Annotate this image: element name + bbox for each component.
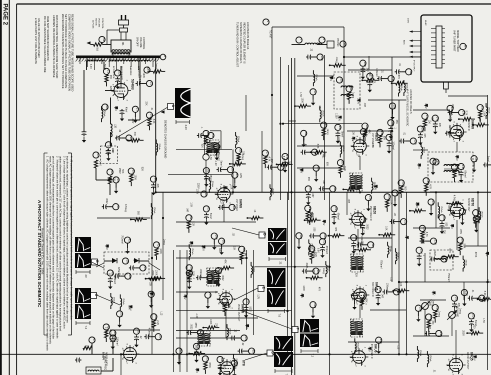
peaking coil L206: [479, 211, 480, 219]
wire vertical bus right edge: [487, 95, 489, 370]
svg-text:1.5K: 1.5K: [299, 92, 301, 97]
designator circle 2: [160, 54, 167, 60]
resistor R62: [108, 176, 111, 184]
svg-text:1.2K: 1.2K: [98, 161, 100, 166]
resistor R72: [222, 266, 230, 269]
svg-text:.1: .1: [132, 259, 134, 262]
designator circle 119: [386, 134, 393, 141]
wire: [392, 82, 396, 84]
designator circle 131: [351, 293, 358, 300]
designator circle 159: [415, 305, 422, 312]
svg-text:3: 3: [462, 141, 464, 143]
svg-text:250uh: 250uh: [342, 146, 344, 153]
designator circle 231: [360, 217, 367, 224]
capacitor C37: [102, 204, 108, 209]
svg-text:250uh: 250uh: [488, 107, 490, 114]
svg-text:4.7K: 4.7K: [448, 248, 450, 253]
resistor R209: [459, 243, 462, 251]
node: [229, 163, 231, 165]
designator circle 62: [107, 169, 114, 175]
wire: [179, 250, 181, 372]
wire: [359, 305, 361, 318]
svg-text:MODEL TOP VIEW: MODEL TOP VIEW: [456, 30, 459, 52]
svg-text:250uh: 250uh: [112, 297, 114, 304]
svg-text:124: 124: [395, 191, 399, 196]
wire vertical bus x392: [391, 57, 393, 282]
junction: [398, 353, 400, 355]
peaking coil L220: [309, 243, 310, 251]
capacitor C113: [377, 76, 383, 81]
svg-text:152: 152: [463, 210, 467, 215]
oscillogram photo A (sync waveform): [175, 88, 191, 130]
resistor R9: [204, 137, 207, 145]
wire: [357, 229, 359, 248]
junction: [186, 353, 188, 355]
capacitor C176: [267, 165, 273, 170]
4.5MHz trap dashed box: [428, 152, 473, 182]
svg-text:4: 4: [351, 299, 353, 301]
svg-text:.047: .047: [381, 294, 383, 299]
designator circle 204: [155, 334, 162, 341]
svg-text:470K: 470K: [236, 158, 238, 164]
capacitor C106: [302, 269, 308, 274]
designator circle 18: [122, 258, 129, 264]
wire: [379, 234, 383, 236]
wire: [155, 140, 157, 144]
resistor R125: [400, 186, 403, 194]
ground: [320, 252, 324, 258]
wire: [277, 163, 281, 165]
designator circle 36: [340, 41, 347, 47]
wire: [361, 306, 363, 310]
wire: [238, 161, 240, 165]
svg-text:.047: .047: [311, 193, 313, 198]
tube V3 3rd video IF 6AU6: [351, 285, 370, 306]
wire vertical bus x406: [406, 192, 408, 354]
notes column (waveform and parts notes): [34, 14, 75, 91]
designator circle 57: [89, 337, 96, 343]
IF transformer T5 (video det coil): [207, 268, 219, 286]
ground: [459, 177, 463, 183]
designator circle 113: [388, 76, 395, 83]
waveform letter square E: [258, 286, 266, 292]
svg-text:2: 2: [126, 362, 128, 364]
oscillogram photo E: [267, 268, 286, 287]
node: [392, 290, 394, 292]
svg-text:97: 97: [341, 161, 345, 165]
svg-text:.01: .01: [403, 132, 405, 136]
capacitor C22: [115, 77, 120, 83]
wire: [325, 188, 330, 190]
wire: [305, 219, 309, 221]
svg-text:250uh: 250uh: [321, 110, 323, 117]
capacitor C197: [114, 274, 120, 279]
svg-text:C14: C14: [360, 264, 362, 269]
wire: [362, 79, 366, 81]
wire: [430, 205, 432, 210]
capacitor C57: [217, 167, 223, 172]
schematic border line top: [17, 3, 491, 5]
resistor R219: [332, 234, 340, 237]
chassis ground legend: [161, 110, 168, 158]
capacitor C210: [194, 350, 199, 356]
wire: [462, 256, 464, 260]
svg-text:.0022: .0022: [105, 198, 107, 204]
wire: [389, 291, 394, 293]
svg-text:PAGE 2: PAGE 2: [2, 4, 8, 26]
ground: [133, 117, 137, 123]
wire: [244, 350, 249, 352]
test arrow: [114, 106, 118, 109]
rectifier tube V11 5U4GB: [111, 80, 131, 102]
designator circle 161: [451, 295, 458, 302]
wire: [313, 56, 318, 58]
svg-text:.047: .047: [428, 325, 430, 330]
svg-text:68K: 68K: [218, 248, 220, 253]
resistor R100: [309, 219, 317, 222]
designator circle 218: [320, 233, 327, 240]
svg-text:ON-OFF: ON-OFF: [136, 37, 139, 47]
svg-text:1: 1: [462, 121, 464, 123]
svg-text:47K: 47K: [318, 287, 320, 292]
designator circle 188: [423, 178, 430, 185]
wire: [101, 106, 103, 110]
svg-text:6.8K: 6.8K: [317, 248, 319, 253]
wire: [464, 245, 487, 247]
ground: [151, 190, 155, 196]
peaking coil L136: [355, 342, 356, 350]
svg-text:175: 175: [285, 155, 289, 160]
designator circle 57: [227, 167, 234, 173]
wire: [235, 132, 237, 136]
wire: [205, 160, 207, 192]
node: [148, 71, 150, 73]
ground: [177, 359, 181, 365]
test arrow: [451, 211, 455, 214]
svg-text:196: 196: [391, 121, 395, 126]
designator circle 189: [360, 60, 367, 67]
node: [247, 217, 249, 219]
capacitor C63: [204, 213, 209, 219]
junction: [405, 353, 407, 355]
designator circle 167: [186, 265, 193, 272]
filter choke L30: [111, 124, 113, 137]
oscillogram photo F: [300, 319, 319, 333]
svg-text:8.2K: 8.2K: [343, 166, 345, 171]
svg-text:L12: L12: [389, 277, 391, 282]
designator circle 60: [102, 104, 109, 110]
svg-text:AGC: AGC: [403, 40, 406, 45]
wire vertical bus x288: [288, 65, 290, 200]
resistor R35: [130, 174, 133, 182]
wire: [130, 182, 132, 186]
designator circle 44: [433, 159, 440, 165]
wire: [413, 227, 450, 229]
svg-text:126: 126: [354, 236, 358, 241]
wire: [176, 291, 218, 293]
svg-text:8: 8: [453, 121, 455, 123]
wire: [384, 78, 389, 80]
wire: [110, 293, 112, 297]
svg-text:.005: .005: [445, 222, 447, 227]
capacitor C224: [469, 320, 474, 326]
wire: [295, 105, 299, 107]
svg-text:560: 560: [404, 186, 406, 191]
svg-text:3RD VIDEO IF: 3RD VIDEO IF: [371, 282, 373, 298]
waveform leader line: [97, 295, 121, 305]
wire: [339, 142, 341, 146]
svg-text:8.2K: 8.2K: [152, 119, 154, 124]
resistor R61: [94, 160, 97, 168]
svg-text:33K: 33K: [443, 230, 445, 235]
svg-text:7.2: 7.2: [311, 354, 315, 358]
svg-text:2: 2: [453, 219, 455, 221]
wire: [95, 168, 97, 180]
svg-text:61: 61: [96, 153, 100, 157]
wire: [153, 328, 155, 332]
svg-text:22: 22: [118, 71, 122, 75]
wire vertical bus x329: [329, 192, 331, 375]
designator circle 29: [105, 142, 112, 148]
capacitor C154: [417, 254, 422, 260]
svg-text:ings shown, no signal input, c: ings shown, no signal input, contrast at…: [66, 156, 70, 323]
wire: [91, 44, 94, 46]
svg-text:100mmf: 100mmf: [115, 337, 117, 346]
svg-text:203: 203: [113, 332, 117, 337]
wire: [343, 188, 347, 190]
capacitor C148: [483, 163, 489, 168]
svg-text:250uh: 250uh: [389, 246, 391, 253]
designator circle 145: [430, 158, 437, 165]
wire: [410, 210, 414, 212]
resistor R104: [310, 252, 313, 260]
tube V12 noise gate 6AB4: [121, 344, 140, 365]
ground: [462, 301, 466, 307]
wire vertical bus x272: [271, 27, 273, 192]
tube V9 video output 6AW8: [217, 289, 236, 310]
svg-text:.1: .1: [393, 127, 395, 130]
svg-text:250uh: 250uh: [272, 188, 274, 195]
wire: [151, 192, 153, 354]
svg-text:18K: 18K: [241, 151, 243, 156]
wire: [220, 131, 222, 150]
junction: [328, 353, 330, 355]
svg-text:255V: 255V: [118, 168, 121, 174]
designator circle 96: [313, 165, 320, 171]
tube V1 1st video IF 6BZ6: [351, 136, 370, 157]
wire: [233, 355, 235, 359]
svg-text:100K: 100K: [310, 212, 312, 218]
node: [446, 203, 448, 205]
svg-text:560: 560: [136, 211, 138, 216]
test arrow: [455, 155, 459, 158]
wire: [432, 164, 434, 169]
ground: [120, 116, 124, 122]
ground: [149, 302, 153, 308]
heater winding labels: [89, 64, 148, 79]
wire: [207, 298, 209, 303]
svg-text:.047: .047: [318, 105, 320, 110]
svg-text:220K: 220K: [109, 86, 111, 92]
designator circle 187: [471, 156, 478, 163]
svg-text:250uh: 250uh: [191, 248, 193, 255]
svg-text:6BZ6: 6BZ6: [373, 206, 377, 214]
designator circle 162: [479, 295, 486, 302]
svg-text:470K: 470K: [208, 362, 210, 368]
ground: [82, 137, 86, 143]
ground: [108, 284, 112, 290]
svg-text:.0022: .0022: [365, 224, 367, 230]
test arrow: [149, 292, 153, 295]
svg-text:4.7meg: 4.7meg: [313, 250, 315, 258]
ground: [187, 284, 191, 290]
svg-text:SOUND DET: SOUND DET: [467, 198, 469, 212]
svg-text:250uh: 250uh: [158, 144, 160, 151]
resistor R205: [451, 202, 459, 205]
ground: [433, 129, 437, 135]
capacitor C119: [387, 141, 392, 147]
ground: [429, 210, 433, 216]
svg-text:.01: .01: [398, 63, 400, 67]
designator circle 217: [331, 206, 338, 213]
ground: [352, 304, 356, 310]
svg-text:47K: 47K: [397, 75, 399, 80]
wire: [368, 56, 370, 70]
capacitor C225: [425, 331, 431, 336]
on-off switch S1 box: [111, 40, 131, 52]
svg-text:8: 8: [356, 136, 358, 138]
capacitor C218: [309, 234, 315, 239]
svg-text:5mmf: 5mmf: [209, 213, 211, 219]
capacitor C217: [332, 213, 337, 219]
ground: [460, 220, 464, 226]
resistor R198: [150, 277, 158, 280]
svg-text:68K: 68K: [307, 177, 309, 182]
svg-text:100mmf: 100mmf: [386, 283, 388, 292]
wire: [420, 143, 422, 147]
designator circle 112: [367, 73, 374, 80]
svg-text:231: 231: [363, 218, 367, 223]
wire: [378, 343, 380, 348]
resistor R52 fusible: [94, 43, 103, 46]
resistor R62: [187, 221, 190, 229]
volume control R47: [447, 311, 456, 320]
svg-text:36: 36: [343, 42, 347, 46]
svg-text:6: 6: [217, 293, 219, 295]
designator circle 201: [117, 311, 124, 318]
wire: [297, 75, 334, 77]
svg-text:750mmf: 750mmf: [447, 273, 449, 282]
ground: [469, 326, 473, 332]
wire: [479, 118, 481, 122]
wire tuner to if: [392, 56, 421, 58]
svg-text:3.3K: 3.3K: [337, 137, 339, 142]
svg-text:470mmf: 470mmf: [117, 267, 119, 276]
capacitor C43: [108, 277, 113, 283]
svg-text:250uh: 250uh: [122, 298, 124, 305]
designator circle 61: [232, 172, 239, 178]
wire: [176, 337, 240, 339]
designator circle 63: [203, 206, 210, 212]
svg-text:6: 6: [215, 188, 217, 190]
capacitor C51: [197, 133, 203, 138]
electrolytic C60B: [106, 149, 111, 155]
resistor R93: [315, 151, 323, 154]
svg-text:161: 161: [455, 297, 459, 302]
svg-text:8.2K: 8.2K: [464, 111, 466, 116]
svg-text:131: 131: [355, 294, 359, 299]
tube V8 video amp 6AW8: [215, 184, 234, 205]
svg-text:21: 21: [107, 70, 111, 74]
svg-text:250uh: 250uh: [423, 147, 425, 154]
oscillogram photo D2: [268, 242, 287, 265]
peaking coil L199: [120, 298, 121, 306]
wire: [173, 250, 175, 372]
wire: [451, 132, 456, 134]
wire: [204, 136, 206, 155]
node: [304, 219, 306, 221]
wire: [273, 166, 278, 168]
designator circle 194: [389, 103, 396, 110]
ground: [194, 357, 198, 363]
test arrow: [417, 163, 421, 166]
waveform letter square G: [267, 350, 275, 356]
wire: [223, 169, 228, 171]
wire: [203, 135, 208, 137]
waveform letter square C: [91, 293, 99, 299]
svg-text:250uh: 250uh: [237, 136, 239, 143]
capacitor C147: [459, 171, 464, 177]
svg-text:1: 1: [362, 209, 364, 211]
svg-text:103: 103: [299, 234, 303, 239]
svg-text:250uh: 250uh: [356, 342, 358, 349]
junction: [486, 281, 488, 283]
capacitor C168: [216, 275, 221, 281]
svg-text:6: 6: [447, 359, 449, 361]
designator circle 140: [432, 115, 439, 122]
test arrow: [105, 244, 109, 247]
svg-text:100K: 100K: [300, 98, 302, 104]
capacitor C105: [320, 246, 325, 252]
peaking coil L171: [313, 74, 314, 82]
designator circle 36: [150, 176, 157, 182]
svg-text:100mmf: 100mmf: [302, 136, 304, 145]
junction: [120, 353, 122, 355]
designator circle 104: [309, 246, 316, 253]
designator circle 190: [406, 69, 413, 76]
designator circle 85: [249, 348, 256, 354]
wire: [367, 201, 369, 206]
designator circle 160: [432, 305, 439, 312]
svg-text:145: 145: [433, 160, 437, 165]
capacitor C78: [186, 330, 192, 335]
resistor R237: [421, 232, 424, 240]
svg-text:per volt meter readings, all m: per volt meter readings, all measurement…: [52, 156, 56, 339]
wire: [162, 192, 164, 300]
quad coil L22: [434, 259, 446, 261]
svg-text:7.6: 7.6: [277, 314, 281, 318]
peaking coil L80: [227, 328, 228, 336]
designator circle 10: [201, 191, 208, 197]
svg-text:8.2K: 8.2K: [192, 271, 194, 276]
wire: [307, 277, 311, 279]
wire: [330, 64, 334, 66]
designator circle 34: [113, 177, 120, 183]
svg-text:4: 4: [349, 223, 351, 225]
wire: [131, 219, 135, 221]
capacitor C141: [448, 110, 454, 115]
svg-text:.1: .1: [422, 254, 424, 257]
